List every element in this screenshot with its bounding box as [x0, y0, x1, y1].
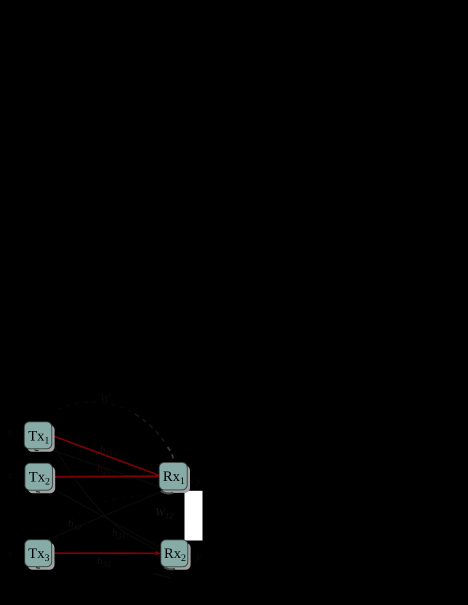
svg-text:y: y	[195, 473, 202, 487]
svg-text:y: y	[195, 549, 202, 563]
svg-text:x: x	[6, 546, 13, 560]
svg-text:x: x	[6, 425, 13, 439]
svg-text:x: x	[6, 468, 13, 482]
svg-text:W: W	[100, 391, 111, 405]
